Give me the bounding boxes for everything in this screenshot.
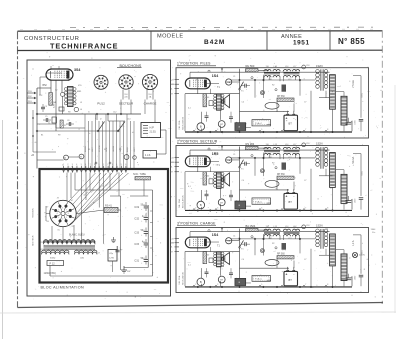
svg-text:+ 52 mA: + 52 mA <box>352 156 355 165</box>
svg-text:BT: BT <box>289 200 293 204</box>
svg-text:21,5Ω: 21,5Ω <box>150 132 156 134</box>
svg-text:2,2M: 2,2M <box>54 103 56 108</box>
svg-text:C33: C33 <box>134 231 139 234</box>
svg-text:2°POSITION SECTEUR: 2°POSITION SECTEUR <box>177 140 218 144</box>
svg-text:R2: R2 <box>272 85 274 87</box>
svg-text:VERT: VERT <box>134 146 136 152</box>
svg-text:2x0,9v: 2x0,9v <box>359 255 365 257</box>
svg-text:TENSION: TENSION <box>33 208 35 218</box>
svg-text:6: 6 <box>125 164 126 166</box>
svg-text:CAL. FRA: CAL. FRA <box>178 120 181 130</box>
svg-text:S1: S1 <box>88 149 90 151</box>
svg-text:CAL. FRA: CAL. FRA <box>178 198 181 208</box>
svg-text:1: 1 <box>63 164 64 166</box>
svg-text:2: 2 <box>107 164 108 166</box>
svg-text:1: 1 <box>66 217 67 219</box>
svg-text:100: 100 <box>206 175 209 177</box>
svg-text:3: 3 <box>217 207 218 209</box>
svg-text:RS 284: RS 284 <box>246 142 255 146</box>
svg-text:C15: C15 <box>134 243 139 246</box>
svg-text:REGULATION: REGULATION <box>182 271 185 284</box>
svg-text:C12: C12 <box>113 112 116 114</box>
svg-text:3: 3 <box>58 217 59 219</box>
svg-text:+B: +B <box>31 154 34 157</box>
svg-text:CA: CA <box>227 240 231 243</box>
svg-text:3: 3 <box>72 164 73 166</box>
svg-text:8: 8 <box>68 213 69 215</box>
svg-text:C7: C7 <box>304 102 306 104</box>
svg-text:8: 8 <box>128 82 129 84</box>
svg-text:S3: S3 <box>119 149 121 151</box>
svg-text:3°POSITION CHARGE: 3°POSITION CHARGE <box>177 222 216 226</box>
svg-text:5: 5 <box>261 284 262 286</box>
svg-text:100: 100 <box>206 255 209 257</box>
svg-text:BOUCHONS: BOUCHONS <box>120 64 142 68</box>
svg-text:1S4: 1S4 <box>212 233 218 237</box>
svg-text:CA: CA <box>227 159 231 162</box>
svg-text:CA: CA <box>227 81 231 84</box>
svg-text:B42M: B42M <box>204 39 225 46</box>
svg-text:RS-41: RS-41 <box>105 205 112 208</box>
svg-text:B: B <box>200 203 202 207</box>
svg-text:CAL. FRA: CAL. FRA <box>178 275 181 285</box>
svg-text:R7: R7 <box>64 125 66 127</box>
svg-text:2: 2 <box>100 85 101 87</box>
svg-text:4: 4 <box>239 129 240 131</box>
svg-text:1: 1 <box>151 84 152 86</box>
svg-text:BA 1524: BA 1524 <box>246 224 256 228</box>
svg-text:1: 1 <box>103 164 104 166</box>
svg-text:1: 1 <box>102 84 103 86</box>
svg-text:8: 8 <box>327 207 328 209</box>
svg-text:4: 4 <box>76 164 77 166</box>
svg-text:I2: I2 <box>100 119 102 121</box>
svg-text:0,1: 0,1 <box>188 108 191 110</box>
svg-text:47Ω: 47Ω <box>78 84 82 87</box>
svg-text:0,1: 0,1 <box>188 264 191 266</box>
svg-text:5: 5 <box>261 207 262 209</box>
svg-text:BT: BT <box>289 278 293 282</box>
svg-text:JAUNE: JAUNE <box>112 145 115 152</box>
svg-text:C19: C19 <box>134 206 139 209</box>
svg-text:C2: C2 <box>55 90 57 92</box>
svg-text:BLOC ALIMENTATION: BLOC ALIMENTATION <box>41 286 85 290</box>
svg-text:B1: B1 <box>41 135 43 137</box>
svg-text:4: 4 <box>116 164 117 166</box>
svg-text:8: 8 <box>103 82 104 84</box>
svg-text:500Ω: 500Ω <box>362 170 364 175</box>
svg-text:3: 3 <box>217 284 218 286</box>
svg-text:500Ω: 500Ω <box>362 92 364 97</box>
svg-text:6: 6 <box>283 207 284 209</box>
svg-text:3: 3 <box>98 84 99 86</box>
svg-text:−: − <box>293 195 295 199</box>
svg-text:3: 3 <box>217 129 218 131</box>
svg-text:VERT: VERT <box>92 146 94 152</box>
svg-text:1904: 1904 <box>371 229 377 231</box>
svg-text:C5: C5 <box>45 116 47 118</box>
svg-text:6: 6 <box>85 164 86 166</box>
svg-text:P+B+C: P+B+C <box>255 279 262 281</box>
svg-text:3: 3 <box>112 164 113 166</box>
svg-text:BLEU: BLEU <box>127 146 129 152</box>
svg-text:B: B <box>200 125 202 129</box>
svg-text:1,2 A: 1,2 A <box>352 240 355 246</box>
svg-text:7: 7 <box>90 164 91 166</box>
svg-text:a: a <box>53 65 54 67</box>
svg-text:C7: C7 <box>304 180 306 182</box>
svg-text:5: 5 <box>81 164 82 166</box>
svg-text:MODELE: MODELE <box>157 34 184 40</box>
svg-text:7: 7 <box>305 129 306 131</box>
svg-text:6: 6 <box>62 208 63 210</box>
svg-text:ROUGE: ROUGE <box>99 144 101 152</box>
svg-text:BT: BT <box>289 122 293 126</box>
svg-text:C32: C32 <box>134 217 139 220</box>
svg-text:BLANC. BLEU: BLANC. BLEU <box>69 234 85 237</box>
svg-text:C4: C4 <box>242 102 244 104</box>
svg-text:8: 8 <box>327 129 328 131</box>
svg-text:8: 8 <box>94 164 95 166</box>
svg-text:REGULATION: REGULATION <box>182 195 185 208</box>
svg-text:5: 5 <box>147 79 148 81</box>
svg-text:SECTEUR: SECTEUR <box>33 235 35 246</box>
svg-text:C7: C7 <box>304 259 306 261</box>
svg-text:N° 855: N° 855 <box>338 37 365 46</box>
svg-text:C18: C18 <box>306 225 309 227</box>
svg-text:C14: C14 <box>127 119 130 121</box>
svg-text:6: 6 <box>125 79 126 81</box>
svg-text:RP 560: RP 560 <box>277 174 285 176</box>
svg-text:8: 8 <box>327 284 328 286</box>
svg-text:8: 8 <box>152 82 153 84</box>
svg-text:BLANC: BLANC <box>84 145 87 152</box>
svg-text:1S2N: 1S2N <box>316 64 323 68</box>
svg-text:5: 5 <box>123 80 124 82</box>
svg-text:6: 6 <box>283 284 284 286</box>
svg-text:CHARGE: CHARGE <box>144 101 157 105</box>
svg-text:B: B <box>200 280 202 284</box>
svg-text:RH 560: RH 560 <box>246 64 255 68</box>
svg-text:R9: R9 <box>58 135 60 137</box>
svg-text:R2: R2 <box>272 243 274 245</box>
svg-text:7: 7 <box>305 284 306 286</box>
svg-text:TECHNIFRANCE: TECHNIFRANCE <box>50 41 118 50</box>
svg-text:6: 6 <box>149 79 150 81</box>
svg-text:1951: 1951 <box>293 40 310 47</box>
svg-text:2: 2 <box>195 129 196 131</box>
svg-text:2: 2 <box>125 85 126 87</box>
svg-text:SOC. TUBE: SOC. TUBE <box>133 173 146 176</box>
svg-text:B52: B52 <box>43 84 48 87</box>
svg-text:L4: L4 <box>80 109 82 111</box>
svg-text:3S4: 3S4 <box>74 68 80 72</box>
svg-text:1S2N: 1S2N <box>316 224 323 228</box>
svg-text:4: 4 <box>97 82 98 84</box>
svg-text:5: 5 <box>261 129 262 131</box>
svg-text:−: − <box>293 273 295 277</box>
svg-text:7,5 mA: 7,5 mA <box>352 80 355 88</box>
svg-text:2: 2 <box>195 284 196 286</box>
svg-text:PU12: PU12 <box>97 101 105 105</box>
svg-text:C1: C1 <box>233 235 235 237</box>
svg-text:2: 2 <box>67 164 68 166</box>
svg-text:2: 2 <box>195 207 196 209</box>
svg-text:6: 6 <box>283 129 284 131</box>
svg-text:1S2N: 1S2N <box>316 142 323 146</box>
svg-text:100: 100 <box>206 97 209 99</box>
svg-text:3: 3 <box>123 84 124 86</box>
svg-text:C31: C31 <box>134 259 139 262</box>
svg-text:9: 9 <box>99 164 100 166</box>
svg-text:50µ: 50µ <box>141 230 146 232</box>
svg-text:1S4: 1S4 <box>212 74 218 78</box>
svg-text:4: 4 <box>122 82 123 84</box>
svg-text:+: + <box>286 273 288 277</box>
svg-text:H.P: H.P <box>150 126 155 130</box>
svg-text:6: 6 <box>100 79 101 81</box>
svg-text:0,1: 0,1 <box>188 186 191 188</box>
svg-text:3: 3 <box>147 84 148 86</box>
svg-text:R2: R2 <box>272 163 274 165</box>
svg-text:5: 5 <box>58 209 59 211</box>
svg-text:5: 5 <box>98 80 99 82</box>
svg-text:REGULATION: REGULATION <box>182 116 185 129</box>
svg-text:7: 7 <box>66 209 67 211</box>
svg-text:C18: C18 <box>306 143 309 145</box>
svg-text:4: 4 <box>57 213 58 215</box>
svg-text:2: 2 <box>62 219 63 221</box>
svg-text:2: 2 <box>149 85 150 87</box>
svg-text:P+B+C: P+B+C <box>255 202 262 204</box>
svg-text:600Ω: 600Ω <box>50 258 56 260</box>
svg-text:C18: C18 <box>306 65 309 67</box>
svg-text:4: 4 <box>239 207 240 209</box>
svg-text:50µ: 50µ <box>141 204 146 206</box>
svg-text:S2: S2 <box>104 149 106 151</box>
svg-text:C3: C3 <box>45 106 47 108</box>
svg-text:−: − <box>293 116 295 120</box>
svg-text:4: 4 <box>239 284 240 286</box>
svg-text:1: 1 <box>127 84 128 86</box>
svg-text:+: + <box>286 195 288 199</box>
svg-text:C1: C1 <box>233 154 235 156</box>
svg-text:C1: C1 <box>233 76 235 78</box>
svg-text:P+B+C: P+B+C <box>255 123 262 125</box>
svg-text:C8: C8 <box>67 120 69 122</box>
svg-text:129Ω (3W): 129Ω (3W) <box>44 272 56 275</box>
svg-text:+: + <box>286 116 288 120</box>
svg-text:4: 4 <box>146 82 147 84</box>
svg-text:1R5: 1R5 <box>212 152 219 156</box>
svg-text:7: 7 <box>305 207 306 209</box>
svg-text:BL: BL <box>58 229 60 231</box>
svg-text:50s: 50s <box>372 232 375 234</box>
svg-text:L3: L3 <box>80 102 82 104</box>
svg-text:R8: R8 <box>68 112 70 114</box>
svg-text:C4: C4 <box>242 259 244 261</box>
svg-text:I1: I1 <box>88 112 90 114</box>
svg-text:1°POSITION PILES: 1°POSITION PILES <box>177 62 211 66</box>
svg-text:P 12: P 12 <box>50 262 56 265</box>
svg-text:C4: C4 <box>242 180 244 182</box>
svg-text:1 LS: 1 LS <box>145 153 151 157</box>
svg-text:50µ: 50µ <box>141 258 146 260</box>
svg-text:5: 5 <box>121 164 122 166</box>
